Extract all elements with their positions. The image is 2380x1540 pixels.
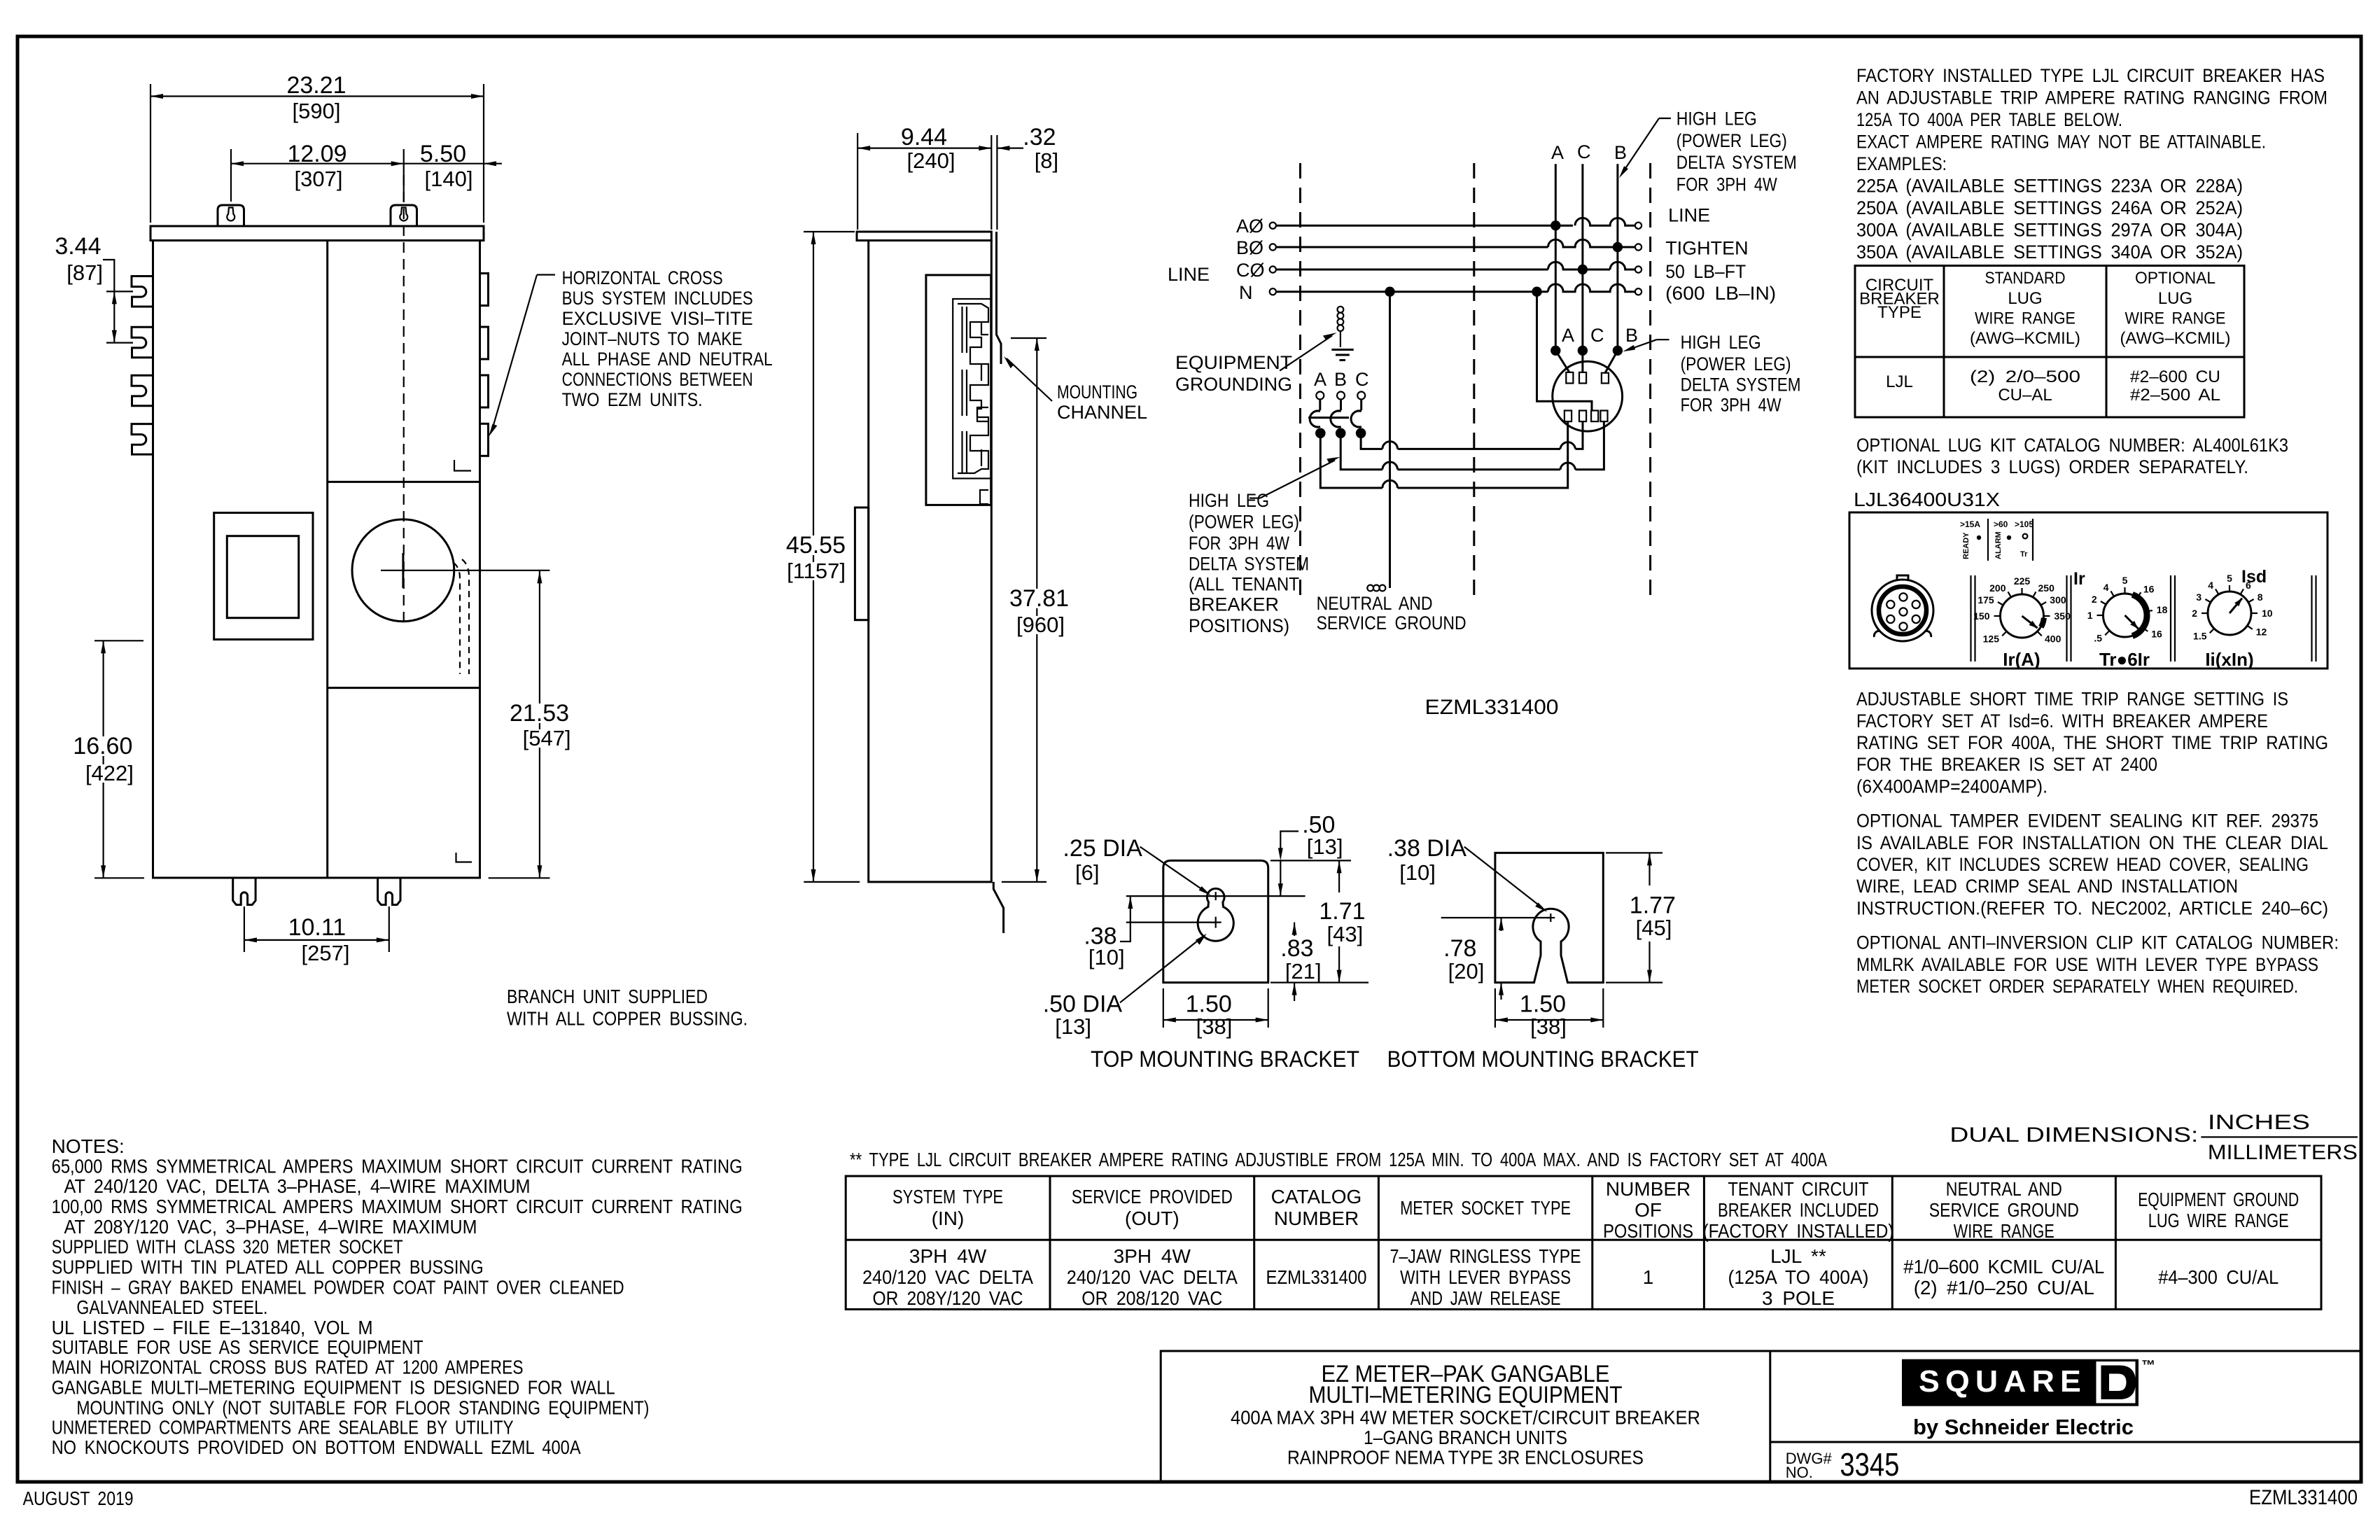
svg-text:MOUNTING: MOUNTING [1057,381,1137,402]
svg-text:AN ADJUSTABLE TRIP AMPERE RATI: AN ADJUSTABLE TRIP AMPERE RATING RANGING… [1856,87,2327,108]
svg-text:(600 LB–IN): (600 LB–IN) [1665,283,1776,304]
wire ground drop [1389,292,1391,588]
breaker pole C terminal [1357,392,1365,400]
rating dial Ir(A) [2001,594,2044,638]
node pole A [1315,428,1326,439]
svg-text:HIGH LEG: HIGH LEG [1681,332,1761,353]
svg-text:.25 DIA: .25 DIA [1063,835,1142,862]
svg-text:RAINPROOF NEMA TYPE 3R ENCLOSU: RAINPROOF NEMA TYPE 3R ENCLOSURES [1287,1447,1644,1469]
svg-text:LJL: LJL [1886,372,1913,391]
leader high leg to pole B [1249,497,1260,498]
service ground coil [1367,585,1373,591]
side view body [869,241,992,882]
svg-text:1: 1 [1643,1266,1654,1288]
svg-text:DELTA SYSTEM: DELTA SYSTEM [1189,554,1309,575]
svg-text:TOP MOUNTING BRACKET: TOP MOUNTING BRACKET [1091,1046,1359,1072]
compartment boundary dashed line right [1649,163,1651,599]
svg-text:MMLRK AVAILABLE FOR USE WITH L: MMLRK AVAILABLE FOR USE WITH LEVER TYPE … [1856,954,2318,975]
breaker contact arc A [1310,411,1320,427]
svg-text:[1157]: [1157] [787,559,846,583]
svg-text:SYSTEM TYPE: SYSTEM TYPE [892,1186,1003,1207]
svg-text:EXACT AMPERE RATING MAY NOT BE: EXACT AMPERE RATING MAY NOT BE ATTAINABL… [1856,132,2266,153]
svg-text:EXCLUSIVE VISI–TITE: EXCLUSIVE VISI–TITE [562,308,753,329]
top bracket keyhole [1198,888,1233,941]
svg-text:#1/0–600 KCMIL CU/AL: #1/0–600 KCMIL CU/AL [1903,1256,2104,1277]
svg-text:OPTIONAL LUG KIT CATALOG NUMBE: OPTIONAL LUG KIT CATALOG NUMBER: AL400L6… [1856,435,2288,456]
meter jaw bottom 2 [1579,411,1586,422]
svg-text:(FACTORY INSTALLED): (FACTORY INSTALLED) [1703,1220,1894,1242]
svg-text:OR 208/120 VAC: OR 208/120 VAC [1081,1287,1222,1309]
node N meter tap [1532,287,1541,297]
wire N neutral [1276,290,1548,293]
svg-text:[38]: [38] [1196,1014,1233,1039]
wire B drop [1616,164,1618,351]
svg-text:READY: READY [1962,532,1970,559]
svg-text:(2) #1/0–250 CU/AL: (2) #1/0–250 CU/AL [1914,1277,2094,1298]
svg-text:LUG: LUG [2158,289,2192,308]
wire A phase [1276,225,1573,227]
svg-text:300: 300 [2050,594,2066,605]
side view left flange [855,507,868,620]
svg-text:DELTA SYSTEM: DELTA SYSTEM [1676,152,1797,173]
wire B phase [1276,246,1548,248]
svg-text:METER SOCKET ORDER SEPARATELY: METER SOCKET ORDER SEPARATELY WHEN REQUI… [1856,976,2298,997]
svg-text:16: 16 [2143,583,2155,594]
svg-text:CU–AL: CU–AL [1998,386,2052,405]
svg-text:200: 200 [1989,582,2006,594]
side view bus compartment [926,275,991,505]
svg-text:WIRE RANGE: WIRE RANGE [2125,309,2226,328]
svg-text:(6X400AMP=2400AMP).: (6X400AMP=2400AMP). [1856,776,2047,797]
svg-text:WIRE RANGE: WIRE RANGE [1954,1220,2054,1242]
svg-text:POSITIONS): POSITIONS) [1189,615,1289,636]
title block frame [1161,1351,2361,1482]
leader equipment grounding [1280,336,1332,371]
svg-text:BOTTOM MOUNTING BRACKET: BOTTOM MOUNTING BRACKET [1387,1046,1699,1072]
svg-text:SQUARE: SQUARE [1919,1364,2087,1399]
square d logo [1902,1359,2138,1406]
svg-text:400: 400 [2045,633,2061,645]
svg-text:™: ™ [2141,1358,2155,1373]
svg-text:FACTORY SET AT Isd=6. WITH BRE: FACTORY SET AT Isd=6. WITH BREAKER AMPER… [1856,710,2268,731]
svg-text:[10]: [10] [1088,945,1125,969]
svg-text:CHANNEL: CHANNEL [1057,402,1147,423]
svg-text:100,00 RMS SYMMETRICAL AMPERS: 100,00 RMS SYMMETRICAL AMPERS MAXIMUM SH… [52,1196,743,1217]
svg-text:1.5: 1.5 [2193,631,2207,642]
svg-text:SERVICE PROVIDED: SERVICE PROVIDED [1072,1186,1233,1207]
mounting foot left [233,878,255,905]
svg-text:[43]: [43] [1327,922,1364,946]
svg-text:45.55: 45.55 [786,532,846,559]
svg-text:LUG WIRE RANGE: LUG WIRE RANGE [2148,1210,2289,1231]
node A on wire A [1550,220,1560,230]
meter socket circle [1553,361,1623,431]
svg-text:5: 5 [2122,575,2128,586]
svg-text:#2–600 CU: #2–600 CU [2130,367,2220,386]
wire A drop [1555,164,1557,351]
svg-text:NOTES:: NOTES: [52,1135,125,1157]
svg-text:HIGH LEG: HIGH LEG [1676,108,1757,129]
breaker pole A terminal [1316,392,1324,400]
node A meter [1550,346,1560,356]
svg-text:(OUT): (OUT) [1125,1207,1179,1229]
svg-text:[547]: [547] [523,726,571,750]
svg-text:LJL **: LJL ** [1770,1245,1826,1267]
node C meter [1578,346,1588,356]
svg-text:.5: .5 [2094,633,2102,644]
bottom mounting bracket plate [1495,853,1603,982]
svg-text:BØ: BØ [1236,237,1263,258]
svg-text:225: 225 [2014,575,2031,587]
svg-text:4: 4 [2103,582,2109,593]
svg-text:RATING SET FOR 400A, THE SHORT: RATING SET FOR 400A, THE SHORT TIME TRIP… [1856,732,2328,753]
mounting foot right [378,878,400,905]
svg-text:5: 5 [2227,573,2232,584]
svg-text:>60: >60 [1994,519,2008,529]
gang clip 3 [132,375,153,406]
svg-text:LJL36400U31X: LJL36400U31X [1854,489,2000,510]
svg-text:EQUIPMENT GROUND: EQUIPMENT GROUND [2138,1189,2299,1210]
svg-text:EZML331400: EZML331400 [1425,696,1559,719]
svg-text:LINE: LINE [1668,205,1710,226]
svg-text:(ALL TENANT: (ALL TENANT [1189,574,1299,595]
svg-text:3: 3 [2196,591,2201,603]
wire C phase [1276,269,1548,271]
svg-text:37.81: 37.81 [1009,585,1069,612]
svg-text:OPTIONAL TAMPER EVIDENT SEALIN: OPTIONAL TAMPER EVIDENT SEALING KIT REF.… [1856,811,2318,832]
svg-text:B: B [1614,142,1627,163]
svg-text:WITH LEVER BYPASS: WITH LEVER BYPASS [1400,1266,1571,1288]
mounting tab left [218,205,244,226]
svg-text:FACTORY INSTALLED TYPE LJL CIR: FACTORY INSTALLED TYPE LJL CIRCUIT BREAK… [1856,65,2325,86]
dim 16.60 [103,640,104,878]
svg-text:[87]: [87] [66,260,103,285]
breaker faceplate box [1849,512,2327,668]
gang clip 1 [132,276,153,307]
svg-text:300A (AVAILABLE SETTINGS 297A: 300A (AVAILABLE SETTINGS 297A OR 304A) [1856,220,2243,241]
svg-text:METER SOCKET TYPE: METER SOCKET TYPE [1400,1197,1571,1219]
svg-text:[21]: [21] [1285,959,1322,983]
svg-text:240/120 VAC DELTA: 240/120 VAC DELTA [1067,1266,1238,1288]
right side tabs [480,274,489,306]
top mounting bracket plate [1163,860,1268,982]
svg-text:3PH 4W: 3PH 4W [1114,1245,1191,1267]
svg-text:CATALOG: CATALOG [1271,1186,1362,1207]
svg-text:23.21: 23.21 [286,72,346,99]
svg-text:225A (AVAILABLE SETTINGS 223A: 225A (AVAILABLE SETTINGS 223A OR 228A) [1856,176,2243,197]
leader high leg to wire B top [1659,118,1671,119]
svg-text:EXAMPLES:: EXAMPLES: [1856,153,1947,174]
svg-text:JOINT–NUTS TO MAKE: JOINT–NUTS TO MAKE [562,328,743,349]
node pole B [1336,428,1346,439]
svg-text:SERVICE GROUND: SERVICE GROUND [1317,612,1466,633]
corner mark lower [456,853,472,862]
enclosure front view top rail [150,226,484,241]
gang clip 2 [132,327,153,358]
svg-text:BUS SYSTEM INCLUDES: BUS SYSTEM INCLUDES [562,288,753,309]
svg-text:INSTRUCTION.(REFER TO. NEC2002: INSTRUCTION.(REFER TO. NEC2002, ARTICLE … [1856,897,2328,918]
svg-text:(POWER LEG): (POWER LEG) [1676,130,1787,151]
svg-text:LINE: LINE [1168,264,1210,285]
svg-text:(2) 2/0–500: (2) 2/0–500 [1970,367,2080,386]
meter jaw top 2 [1579,372,1586,384]
wire pole C to jaw2 [1361,421,1583,449]
svg-text:TIGHTEN: TIGHTEN [1665,238,1749,259]
FRONTVIEW [784,124,1147,933]
svg-text:(AWG–KCMIL): (AWG–KCMIL) [1970,329,2080,348]
svg-text:.32: .32 [1023,124,1056,150]
svg-text:BREAKER INCLUDED: BREAKER INCLUDED [1718,1199,1879,1221]
svg-text:BREAKER: BREAKER [1189,594,1279,615]
dial Ir wedge [2041,618,2044,627]
svg-text:** TYPE LJL CIRCUIT BREAKER AM: ** TYPE LJL CIRCUIT BREAKER AMPERE RATIN… [850,1149,1827,1170]
node C on wire C [1578,265,1588,274]
jaw stack detail [953,299,991,479]
svg-text:350: 350 [2054,610,2071,622]
BRACKETS [23,1111,2361,1509]
gang clip 4 [132,424,153,455]
svg-text:(POWER LEG): (POWER LEG) [1681,353,1791,374]
svg-text:A: A [1314,369,1326,390]
svg-text:[38]: [38] [1530,1014,1567,1039]
svg-text:C: C [1577,141,1591,162]
door window outer [214,513,313,640]
mounting channel tail [993,882,1003,933]
svg-text:N: N [1239,282,1253,303]
svg-text:C: C [1355,369,1369,390]
svg-text:C: C [1590,325,1604,346]
svg-text:1: 1 [2087,610,2093,621]
door window inner [227,536,298,618]
wire B to jaw [1605,351,1618,373]
svg-text:FOR 3PH 4W: FOR 3PH 4W [1681,395,1781,416]
svg-text:FOR THE BREAKER IS SET AT 2400: FOR THE BREAKER IS SET AT 2400 [1856,754,2157,775]
svg-text:1.71: 1.71 [1319,898,1365,925]
svg-text:[20]: [20] [1448,959,1485,983]
mounting channel edge top [997,232,1002,364]
node B on wire B [1613,242,1623,252]
svg-text:400A MAX 3PH 4W METER SOCKET/C: 400A MAX 3PH 4W METER SOCKET/CIRCUIT BRE… [1231,1407,1700,1429]
svg-text:WITH ALL COPPER BUSSING.: WITH ALL COPPER BUSSING. [507,1008,748,1030]
svg-text:MAIN HORIZONTAL CROSS BUS RATE: MAIN HORIZONTAL CROSS BUS RATED AT 1200 … [52,1357,524,1378]
svg-text:3PH 4W: 3PH 4W [909,1245,987,1267]
svg-text:1.50: 1.50 [1520,991,1566,1018]
svg-text:WIRE RANGE: WIRE RANGE [1975,309,2075,328]
svg-text:A: A [1551,142,1564,163]
svg-text:A: A [1562,325,1574,346]
compartment boundary dashed line middle [1473,163,1475,599]
svg-text:>105: >105 [2015,519,2033,529]
svg-text:.38 DIA: .38 DIA [1387,835,1467,862]
wire pole A to jaw1 [1320,421,1567,488]
svg-text:OPTIONAL: OPTIONAL [2135,269,2215,288]
svg-text:8: 8 [2257,591,2263,603]
svg-text:POSITIONS: POSITIONS [1603,1220,1693,1242]
svg-text:MOUNTING ONLY (NOT SUITABLE FO: MOUNTING ONLY (NOT SUITABLE FOR FLOOR ST… [76,1397,649,1419]
compartment line lower [328,687,480,689]
svg-text:NO KNOCKOUTS PROVIDED ON BOTTO: NO KNOCKOUTS PROVIDED ON BOTTOM ENDWALL … [52,1436,581,1458]
ground symbol [1331,349,1353,351]
svg-text:GROUNDING: GROUNDING [1175,374,1292,395]
svg-text:AT 240/120 VAC, DELTA 3–PHASE,: AT 240/120 VAC, DELTA 3–PHASE, 4–WIRE MA… [64,1175,531,1197]
svg-text:LUG: LUG [2008,289,2042,308]
svg-text:125: 125 [1983,633,2000,645]
svg-text:[10]: [10] [1399,860,1436,885]
svg-text:6: 6 [2246,580,2251,591]
svg-text:Ii(xIn): Ii(xIn) [2205,649,2253,670]
svg-text:SUPPLIED WITH TIN PLATED ALL C: SUPPLIED WITH TIN PLATED ALL COPPER BUSS… [52,1256,484,1278]
svg-text:CONNECTIONS BETWEEN: CONNECTIONS BETWEEN [562,369,753,390]
catalog table frame [846,1176,2321,1309]
svg-text:EZML331400: EZML331400 [1266,1266,1367,1288]
svg-text:18: 18 [2157,604,2168,615]
enclosure front view body [153,241,480,878]
svg-text:[13]: [13] [1307,834,1343,859]
svg-text:350A (AVAILABLE SETTINGS 340A: 350A (AVAILABLE SETTINGS 340A OR 352A) [1856,241,2243,262]
svg-text:10: 10 [2262,608,2273,619]
svg-text:B: B [1334,369,1347,390]
svg-text:B: B [1625,325,1638,346]
svg-text:240/120 VAC DELTA: 240/120 VAC DELTA [862,1266,1033,1288]
svg-text:4: 4 [2208,580,2213,591]
svg-text:[590]: [590] [293,99,341,123]
svg-text:AT 208Y/120 VAC, 3–PHASE, 4–WI: AT 208Y/120 VAC, 3–PHASE, 4–WIRE MAXIMUM [64,1216,477,1238]
svg-text:#4–300 CU/AL: #4–300 CU/AL [2158,1266,2278,1288]
svg-text:[140]: [140] [425,167,473,191]
svg-text:[8]: [8] [1035,148,1058,173]
svg-text:EQUIPMENT: EQUIPMENT [1175,352,1292,373]
svg-text:DELTA SYSTEM: DELTA SYSTEM [1681,374,1801,395]
trip unit connector [1872,580,1933,641]
svg-text:.50 DIA: .50 DIA [1043,991,1123,1018]
svg-text:NO.: NO. [1786,1464,1813,1481]
svg-text:10.11: 10.11 [288,914,346,941]
svg-text:INCHES: INCHES [2208,1111,2310,1134]
svg-text:TENANT CIRCUIT: TENANT CIRCUIT [1728,1178,1869,1200]
svg-text:.83: .83 [1280,935,1313,962]
svg-text:ALL PHASE AND NEUTRAL: ALL PHASE AND NEUTRAL [562,349,773,370]
breaker pole stems [1319,400,1321,411]
breaker contact arc B [1331,411,1341,427]
svg-text:[422]: [422] [85,761,134,785]
compartment line upper [328,481,480,483]
svg-text:AØ: AØ [1236,216,1263,237]
svg-text:(125A TO 400A): (125A TO 400A) [1728,1266,1869,1288]
svg-text:FINISH – GRAY BAKED ENAMEL POW: FINISH – GRAY BAKED ENAMEL POWDER COAT P… [52,1277,624,1298]
svg-text:175: 175 [1977,594,1994,605]
svg-text:FOR 3PH 4W: FOR 3PH 4W [1676,174,1777,195]
svg-text:ALARM: ALARM [1994,531,2003,559]
dial Tr black band [2132,594,2147,636]
svg-text:(KIT INCLUDES 3 LUGS) ORDER SE: (KIT INCLUDES 3 LUGS) ORDER SEPARATELY. [1856,456,2248,477]
wire C drop [1581,164,1583,372]
svg-text:125A TO 400A PER TABLE BELOW.: 125A TO 400A PER TABLE BELOW. [1856,109,2122,130]
svg-text:[960]: [960] [1016,612,1065,637]
breaker contact arc C [1351,411,1361,427]
svg-text:DUAL DIMENSIONS:: DUAL DIMENSIONS: [1949,1123,2198,1147]
node N ground tap [1385,287,1394,297]
svg-text:(POWER LEG): (POWER LEG) [1189,512,1299,533]
leader high leg to node B meter [1657,339,1669,340]
breaker pole B terminal [1337,392,1345,400]
instantaneous dial Ii [2208,591,2251,635]
svg-text:2: 2 [2092,594,2097,605]
svg-text:OPTIONAL ANTI–INVERSION CLIP K: OPTIONAL ANTI–INVERSION CLIP KIT CATALOG… [1856,932,2339,953]
svg-text:1.77: 1.77 [1630,892,1676,918]
dim 45.55 [813,232,814,882]
wire pole B to jaw4 [1340,421,1604,470]
meter jaw bottom 4 [1600,411,1607,422]
svg-text:50 LB–FT: 50 LB–FT [1665,261,1746,282]
svg-text:NUMBER: NUMBER [1274,1207,1359,1229]
svg-text:3.44: 3.44 [55,233,101,260]
svg-text:[257]: [257] [302,941,350,965]
svg-text:3345: 3345 [1840,1446,1899,1483]
svg-text:OF: OF [1634,1199,1662,1221]
svg-text:UNMETERED COMPARTMENTS ARE SEA: UNMETERED COMPARTMENTS ARE SEALABLE BY U… [52,1417,514,1438]
svg-text:Ir(A): Ir(A) [2003,649,2040,670]
svg-text:HIGH LEG: HIGH LEG [1189,490,1269,511]
svg-text:SERVICE GROUND: SERVICE GROUND [1929,1199,2079,1221]
svg-text:GALVANNEALED STEEL.: GALVANNEALED STEEL. [76,1296,267,1318]
lug table frame [1855,266,2244,418]
svg-text:NUMBER: NUMBER [1606,1178,1690,1200]
svg-text:65,000 RMS SYMMETRICAL AMPERS: 65,000 RMS SYMMETRICAL AMPERS MAXIMUM SH… [52,1156,743,1177]
svg-text:[307]: [307] [295,167,343,191]
corner mark upper [454,460,471,471]
svg-text:by Schneider Electric: by Schneider Electric [1913,1415,2134,1439]
svg-text:7–JAW RINGLESS TYPE: 7–JAW RINGLESS TYPE [1390,1245,1581,1267]
node B meter [1613,346,1623,356]
svg-text:>15A: >15A [1960,519,1980,529]
side view top cap [857,232,991,241]
svg-text:[13]: [13] [1055,1014,1091,1039]
svg-text:1–GANG BRANCH UNITS: 1–GANG BRANCH UNITS [1364,1427,1567,1448]
svg-text:[45]: [45] [1636,916,1672,940]
meter jaw bottom 1 [1564,411,1571,422]
svg-text:IS AVAILABLE FOR INSTALLATION: IS AVAILABLE FOR INSTALLATION ON THE CLE… [1856,832,2328,853]
svg-text:NEUTRAL AND: NEUTRAL AND [1317,593,1433,614]
svg-text:21.53: 21.53 [510,700,569,727]
svg-text:250: 250 [2038,582,2055,594]
breaker tie bar [1308,416,1349,419]
svg-text:TYPE: TYPE [1877,303,1921,322]
svg-text:AND JAW RELEASE: AND JAW RELEASE [1410,1287,1561,1309]
svg-text:AUGUST 2019: AUGUST 2019 [23,1487,134,1509]
dashed bypass lever [454,563,460,674]
vertical dashed center line [403,175,405,623]
svg-text:(AWG–KCMIL): (AWG–KCMIL) [2120,329,2231,348]
wire neutral to meter [1537,292,1592,411]
svg-text:ADJUSTABLE SHORT TIME TRIP RAN: ADJUSTABLE SHORT TIME TRIP RANGE SETTING… [1856,689,2288,710]
equipment grounding coil [1338,307,1344,313]
svg-text:150: 150 [1973,610,1990,622]
svg-text:FOR 3PH 4W: FOR 3PH 4W [1189,533,1289,554]
svg-text:MILLIMETERS: MILLIMETERS [2208,1141,2358,1164]
compartment boundary dashed line left [1299,163,1301,599]
svg-text:NEUTRAL AND: NEUTRAL AND [1946,1178,2062,1200]
svg-text:GANGABLE MULTI–METERING EQUIPM: GANGABLE MULTI–METERING EQUIPMENT IS DES… [52,1377,615,1399]
svg-text:2: 2 [2192,608,2197,619]
mounting tab right [391,205,417,226]
meter center line horizontal [381,570,549,571]
meter jaw top 3 [1602,373,1609,384]
dim 21.53 [539,570,540,878]
svg-text:Ir: Ir [2073,569,2085,589]
svg-text:[240]: [240] [907,148,955,173]
svg-text:[6]: [6] [1075,860,1099,885]
svg-text:COVER, KIT INCLUDES SCREW HEAD: COVER, KIT INCLUDES SCREW HEAD COVER, SE… [1856,854,2309,875]
